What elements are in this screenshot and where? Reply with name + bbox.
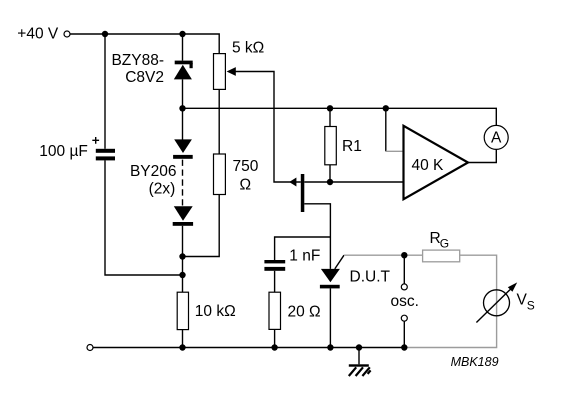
- op-amp U1 40K: [404, 126, 469, 199]
- wire 1nF bottom lead: [274, 271, 276, 292]
- thyristor D.U.T: [320, 255, 344, 288]
- wire 20 Ohm bottom lead: [274, 329, 276, 347]
- node junction feedback / amp input: [383, 105, 389, 111]
- capacitor C2 1nF plates: [264, 260, 285, 271]
- wire 100uF top lead: [104, 34, 106, 149]
- terminal +40V input: [64, 31, 70, 37]
- diode D3 BY206 lower: [173, 206, 193, 226]
- ground: [349, 348, 371, 377]
- wire dashed between BY206 diodes: [182, 160, 184, 206]
- svg-text:40 K: 40 K: [412, 157, 445, 174]
- wire 1nF branch top: [275, 237, 331, 260]
- svg-text:C8V2: C8V2: [125, 69, 164, 86]
- resistor 750 Ohm: [214, 154, 226, 195]
- svg-text:BY206: BY206: [130, 163, 177, 180]
- wire bottom rail: [93, 347, 404, 349]
- wire drain to amp: [304, 181, 403, 183]
- wire DUT cathode: [329, 288, 331, 347]
- wire osc bottom: [403, 321, 405, 347]
- resistor RG body: [423, 250, 460, 262]
- svg-text:R1: R1: [342, 138, 362, 155]
- wire amp output: [468, 149, 496, 162]
- svg-text:A: A: [491, 130, 502, 147]
- node junction bottom 20 Ohm: [271, 344, 277, 350]
- diode D2 BY206 upper: [173, 139, 193, 158]
- node junction R1 bottom / drain: [327, 179, 333, 185]
- plus sign of 100uF: [92, 137, 99, 144]
- svg-text:osc.: osc.: [391, 293, 419, 310]
- wire R1 bottom lead: [329, 165, 331, 182]
- wire gate gray to RG: [344, 254, 423, 256]
- wire 10 kOhm bottom lead: [182, 330, 184, 348]
- wire 100uF bottom lead: [105, 160, 183, 275]
- potentiometer 5 kOhm body: [214, 54, 226, 90]
- wire top rail: [70, 34, 219, 54]
- wire zener to BY206: [182, 79, 184, 139]
- svg-text:750: 750: [233, 158, 259, 175]
- wire RG to VS gray loop: [404, 255, 496, 347]
- wire main horizontal node: [183, 108, 497, 125]
- capacitor C1 100uF plates: [96, 149, 115, 161]
- node junction zener/main wire: [179, 105, 185, 111]
- node junction bottom 10k: [179, 344, 185, 350]
- wire amp top input vertical: [385, 108, 387, 151]
- wire R1 top lead: [329, 108, 331, 126]
- wire source lead: [304, 204, 330, 269]
- wire BY206 bottom to 10k: [182, 226, 184, 292]
- node junction bottom osc: [401, 344, 407, 350]
- svg-text:MBK189: MBK189: [451, 355, 499, 369]
- node junction rail/100uF: [102, 31, 108, 37]
- svg-text:20 Ω: 20 Ω: [288, 304, 321, 321]
- svg-text:BZY88-: BZY88-: [111, 52, 164, 69]
- wire amp top input gray: [386, 150, 404, 152]
- wire 5k bottom to 750 top: [218, 89, 220, 154]
- resistor 20 Ohm: [269, 292, 281, 329]
- svg-text:D.U.T: D.U.T: [350, 269, 391, 286]
- wire osc top: [403, 255, 405, 284]
- resistor R1 body: [325, 127, 337, 165]
- svg-text:Ω: Ω: [240, 177, 252, 194]
- node junction 750/zener chain: [179, 253, 185, 259]
- wire zener top lead: [182, 34, 184, 61]
- node junction 100uF/zener chain: [179, 272, 185, 278]
- svg-text:1 nF: 1 nF: [289, 248, 320, 265]
- svg-text:S: S: [527, 299, 535, 313]
- svg-text:G: G: [440, 236, 449, 250]
- svg-text:+40 V: +40 V: [17, 26, 59, 43]
- node junction R1 top: [327, 105, 333, 111]
- diode D1 BZY88-C8V2 zener: [174, 61, 193, 80]
- svg-text:100 µF: 100 µF: [39, 143, 88, 160]
- node junction bottom DUT: [327, 344, 333, 350]
- svg-text:10 kΩ: 10 kΩ: [195, 303, 236, 320]
- transistor Q1 channel bar: [301, 174, 305, 212]
- svg-text:5 kΩ: 5 kΩ: [232, 40, 264, 57]
- node junction gate/osc: [401, 252, 407, 258]
- source VS circle: [484, 290, 510, 316]
- node junction rail/zener: [179, 31, 185, 37]
- terminal osc upper: [401, 284, 407, 290]
- ammeter A: [484, 125, 508, 149]
- resistor 10 kOhm: [177, 292, 188, 329]
- terminal bottom left: [87, 345, 93, 351]
- wire wiper to gate: [232, 72, 301, 183]
- source VS arrow: [476, 289, 510, 322]
- svg-text:(2x): (2x): [149, 181, 176, 198]
- terminal osc lower: [401, 315, 407, 321]
- node junction bottom ground: [356, 344, 362, 350]
- wiper arrow of potentiometer: [227, 67, 236, 76]
- transistor Q1 gate arrow: [289, 178, 296, 187]
- wire 750 bottom lead: [183, 195, 220, 257]
